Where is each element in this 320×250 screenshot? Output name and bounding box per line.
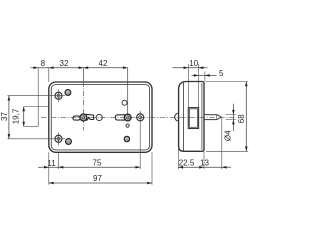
- svg-text:42: 42: [99, 59, 108, 68]
- side view case step line: [183, 82, 185, 152]
- svg-text:10: 10: [189, 59, 198, 68]
- svg-text:Ø4: Ø4: [223, 130, 232, 141]
- svg-text:11: 11: [47, 159, 56, 168]
- shaft edge extension lines for dia4: [226, 114, 236, 116]
- extension lines for 68: [206, 81, 248, 83]
- arrow right at 201.7: [199, 166, 204, 169]
- svg-text:97: 97: [93, 174, 102, 183]
- front view inner case line: [51, 85, 149, 150]
- 37-dim extension line through top-left hole: [8, 95, 66, 97]
- arrow left at 177.8: [178, 166, 183, 169]
- small circle above hand shaft: [122, 100, 127, 105]
- dia4 dimension vertical line: [232, 104, 234, 131]
- side view case outline: [179, 82, 204, 152]
- arrow up at 106.5: [22, 107, 25, 112]
- vertical extension line to hand shaft: [127, 68, 129, 114]
- svg-text:22.5: 22.5: [179, 158, 195, 167]
- svg-text:68: 68: [237, 114, 246, 123]
- alarm hole circle: [96, 114, 102, 120]
- arrow right at 48.8 bottom: [44, 166, 49, 169]
- svg-text:5: 5: [219, 69, 224, 78]
- battery compartment outer: [188, 108, 198, 129]
- hand-setting knob knurled wheel: [80, 114, 87, 121]
- arrow down at 138.8: [8, 134, 11, 139]
- horizontal centerline: [41, 116, 237, 118]
- knurled screw top-left: [65, 90, 71, 96]
- dim 68 vertical line: [245, 82, 247, 152]
- mounting hole bottom-left: [55, 133, 62, 146]
- arrow left at 204.6 (5 dim): [205, 74, 210, 77]
- hanger bracket horizontal bottom: [24, 126, 39, 128]
- arrow right at 152.5 (97): [147, 182, 152, 185]
- extension line from right hole down to 75 dim: [139, 111, 141, 169]
- vertical centerline through setting knob: [82, 68, 84, 82]
- knurled screw bottom-left: [66, 139, 72, 145]
- hand-setting knob left wing: [73, 116, 80, 120]
- arrow right at 127.7: [123, 66, 128, 69]
- mounting hole top-left: [55, 89, 62, 102]
- top dimension line 8 32 42: [31, 67, 128, 69]
- hand shaft sleeve (cylinder pointing left): [115, 115, 125, 120]
- extension line body left corner: [48, 68, 50, 82]
- bottom row extension lines: [48, 152, 50, 185]
- svg-text:19,7: 19,7: [12, 108, 21, 124]
- dia4 arrow up: [232, 120, 235, 125]
- bowtie arrows at 83.4: [79, 66, 89, 69]
- svg-text:13: 13: [200, 159, 209, 168]
- extension line at 204.6: [204, 72, 206, 82]
- arrow down at 153: [245, 147, 248, 152]
- 37-dim extension line through bottom-left hole: [8, 138, 66, 140]
- dia4 arrow down: [232, 110, 235, 115]
- dim line 97: [49, 182, 152, 184]
- arrow right at 140.2 bottom: [135, 166, 140, 169]
- hand shaft neck: [125, 115, 128, 119]
- front view outer case outline: [49, 82, 152, 152]
- hanger bracket horizontal top: [24, 106, 49, 108]
- dim line 5 with leader: [192, 74, 217, 76]
- arrow up at 95.7: [8, 96, 11, 101]
- hand shaft knurled boss: [124, 114, 131, 121]
- svg-text:32: 32: [60, 59, 69, 68]
- hand shaft tip cone: [217, 115, 222, 120]
- svg-text:37: 37: [0, 112, 9, 121]
- svg-text:8: 8: [41, 59, 46, 68]
- arrow left at 200: [199, 66, 204, 69]
- dim line 10: [173, 67, 208, 69]
- extension lines 22.5 / 13: [177, 149, 179, 169]
- small circle below hand shaft: [126, 124, 129, 127]
- arrow left at 48.8 (97): [49, 182, 54, 185]
- dim 19,7 vertical line: [23, 107, 25, 127]
- battery compartment inner: [190, 109, 198, 128]
- dim 37 vertical line: [8, 96, 10, 139]
- arrow right at 200 (5 dim): [194, 74, 199, 77]
- arrow right at 38.2: [33, 66, 38, 69]
- arrow right at 188.4: [184, 66, 189, 69]
- extension lines for battery box: [187, 64, 189, 108]
- hand-setting knob right wing: [86, 114, 94, 120]
- svg-text:75: 75: [93, 158, 102, 167]
- dim line 22.5 13: [178, 166, 231, 168]
- side view case inner front line: [201, 83, 203, 150]
- arrow up at 84.4: [245, 82, 248, 87]
- arrow left outside at 221.8: [222, 166, 227, 169]
- setting knob bump on back of case: [175, 113, 179, 121]
- arrow left at 48.8: [49, 66, 54, 69]
- mounting hole right: [137, 114, 144, 121]
- extension line at hanger (x=38.2): [37, 68, 39, 127]
- hand shaft side view tube: [204, 115, 217, 120]
- arrow left at 58.5 bottom: [59, 166, 64, 169]
- dim line 11 75: [38, 166, 140, 168]
- knurled nut below hand shaft: [124, 136, 129, 141]
- arrow down at 126.5: [22, 122, 25, 127]
